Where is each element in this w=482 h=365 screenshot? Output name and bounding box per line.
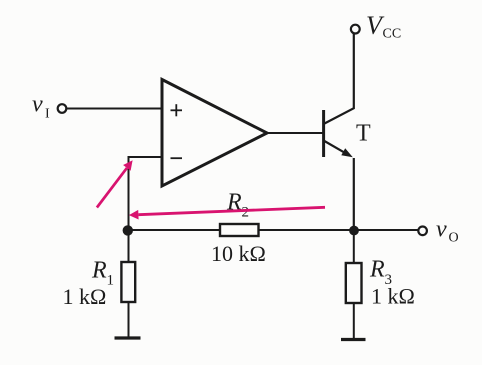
node vO output terminal xyxy=(418,227,427,236)
transistor T collector lead up to VCC xyxy=(325,34,354,124)
wire R1 to ground xyxy=(128,302,130,338)
transistor T emitter lead with arrowhead xyxy=(324,141,352,157)
svg-text:1 kΩ: 1 kΩ xyxy=(371,284,415,309)
label vO xyxy=(436,216,459,245)
svg-text:O: O xyxy=(449,231,459,246)
ground (below R3) xyxy=(341,338,366,341)
svg-text:I: I xyxy=(45,107,50,122)
svg-text:2: 2 xyxy=(242,205,250,221)
annotation arrow along R2 toward node A xyxy=(129,207,325,219)
node vI input terminal xyxy=(58,104,67,113)
svg-text:CC: CC xyxy=(383,27,402,42)
resistor R3 body xyxy=(346,263,362,303)
svg-text:1: 1 xyxy=(107,273,115,289)
svg-text:R: R xyxy=(91,257,107,283)
wire feedback: inverting input left then down to node A xyxy=(129,157,163,230)
label R3 xyxy=(369,256,392,288)
resistor R2 body xyxy=(220,224,259,236)
node VCC supply terminal xyxy=(351,25,360,34)
wire op-amp output to transistor base xyxy=(267,132,323,134)
wire R3 to ground xyxy=(353,303,355,340)
node A junction dot xyxy=(123,225,133,235)
label R1 xyxy=(91,257,114,288)
svg-text:1 kΩ: 1 kΩ xyxy=(63,284,107,309)
annotation arrow to inverting-input feedback corner xyxy=(97,160,133,207)
svg-text:v: v xyxy=(32,92,43,118)
op-amp U1 triangle xyxy=(162,80,267,187)
wire node A down to R1 xyxy=(128,230,130,262)
wire node B down to R3 xyxy=(353,231,355,264)
wire emitter down to node B xyxy=(353,158,355,231)
node B junction dot xyxy=(349,226,359,236)
resistor R1 body xyxy=(121,262,135,302)
wire bottom rail node A to vO terminal xyxy=(129,229,419,231)
svg-text:T: T xyxy=(356,121,371,147)
ground (below R1) xyxy=(115,336,141,339)
op-amp plus input marking xyxy=(171,104,183,116)
svg-text:10 kΩ: 10 kΩ xyxy=(211,241,266,266)
op-amp minus input marking xyxy=(171,157,183,159)
svg-text:v: v xyxy=(436,216,447,242)
label R2 xyxy=(226,189,249,220)
wire vI terminal to op-amp noninverting input xyxy=(67,108,164,110)
label vI xyxy=(32,92,50,122)
label VCC xyxy=(366,11,401,42)
svg-text:R: R xyxy=(369,256,385,282)
transistor T base bar xyxy=(322,110,325,157)
